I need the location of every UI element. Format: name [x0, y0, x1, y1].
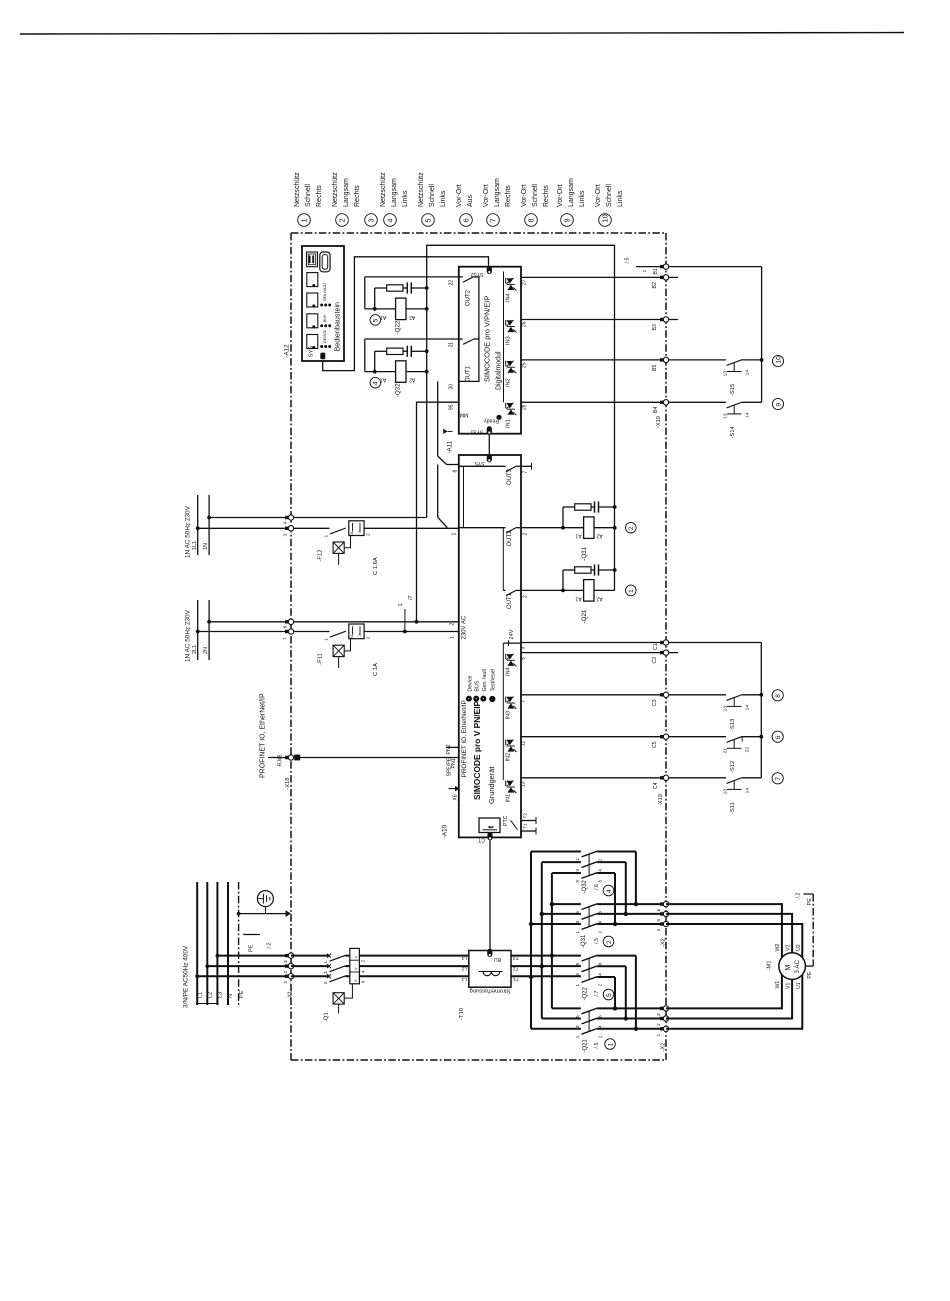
terminal feed1 L on boundary: [285, 527, 289, 530]
earthing symbol: [257, 891, 273, 907]
svg-text:RJ45: RJ45: [278, 754, 284, 766]
coil -Q21 A1-A2: [584, 580, 594, 602]
svg-text:14: 14: [745, 788, 751, 794]
digital module SYS1 connector: [487, 426, 492, 434]
svg-text:Netzschütz: Netzschütz: [380, 172, 387, 207]
svg-text:/.2: /.2: [796, 893, 802, 899]
svg-text:SYS: SYS: [309, 346, 315, 358]
svg-text:A1: A1: [575, 595, 581, 601]
base unit OUT3-OUT2 common bar: [463, 466, 465, 527]
svg-text:V1: V1: [786, 983, 792, 989]
svg-text:1: 1: [575, 1035, 580, 1038]
operator panel round button: [320, 252, 330, 272]
svg-text:C 1A: C 1A: [373, 663, 379, 676]
svg-text:Vor-Ort: Vor-Ort: [521, 184, 528, 207]
svg-text:Links: Links: [402, 190, 409, 207]
base unit input IN4: [505, 654, 507, 659]
svg-text:OUT3: OUT3: [507, 468, 513, 485]
phase tap L2: [205, 964, 209, 968]
svg-text:-Q32: -Q32: [395, 383, 402, 397]
phase bus vertical A (L1): [530, 852, 532, 1029]
svg-text:-S13: -S13: [730, 719, 736, 731]
svg-text:L3: L3: [218, 992, 224, 998]
enclosure boundary dash-dot left edge: [290, 233, 292, 1060]
svg-text:OUT2: OUT2: [466, 289, 472, 306]
function label circled 5 Netzschütz Schnell Links: [422, 214, 435, 227]
wire DM terminal 30 common to L: [437, 381, 439, 456]
wire -X2:6 to motor W2: [666, 904, 782, 958]
svg-text:B5: B5: [652, 365, 658, 371]
circled ref 1 at -Q21: [626, 585, 637, 596]
wire -F12 to base unit terminal 1: [364, 527, 459, 529]
svg-text:14: 14: [745, 370, 751, 376]
output link vertical E upper: [625, 862, 627, 914]
svg-text:Netzschütz: Netzschütz: [418, 172, 425, 207]
junction dot -Q22 coil A2 to N bus: [425, 307, 429, 311]
svg-text:Bedienbaustein: Bedienbaustein: [333, 302, 342, 352]
circuit breaker -Q1 pole L2: [291, 965, 329, 967]
svg-text:1: 1: [452, 533, 458, 536]
svg-text:-S14: -S14: [730, 425, 736, 438]
-Q32 RC branch wire: [374, 351, 376, 371]
PE continuation tick /.2: [243, 934, 260, 936]
base unit OUT3 unused stub terminal 7: [521, 465, 532, 467]
svg-text:2N: 2N: [203, 647, 209, 654]
svg-text:Rechts: Rechts: [543, 185, 550, 207]
svg-text:3: 3: [575, 973, 580, 976]
terminal -X1 pin 2: [285, 964, 289, 967]
svg-text:6: 6: [598, 911, 603, 914]
svg-text:2: 2: [598, 858, 603, 861]
ethernet connector -X18 RJ45 terminal: [285, 756, 289, 759]
capacitor of -Q22 RC snubber: [406, 282, 408, 293]
svg-text:230V AC: 230V AC: [462, 615, 468, 639]
svg-text:Digitalmodul: Digitalmodul: [496, 351, 503, 390]
wire -X2:4 to motor U2: [666, 924, 802, 958]
function label circled 3: [365, 214, 378, 227]
svg-text:1: 1: [299, 218, 308, 222]
svg-text:30: 30: [449, 384, 455, 390]
svg-text:5: 5: [521, 657, 527, 660]
svg-text:2: 2: [656, 1023, 662, 1026]
svg-text:25: 25: [522, 362, 528, 368]
terminal -X19 C2: [660, 651, 664, 654]
svg-text:2: 2: [450, 623, 456, 626]
svg-text:-Q22: -Q22: [395, 320, 402, 334]
supply line N: [227, 882, 229, 1005]
contactor -Q32 main contacts: [531, 851, 581, 853]
svg-text:-S15: -S15: [730, 384, 736, 396]
svg-text:L2: L2: [208, 992, 214, 998]
feed1 L1 stub: [197, 495, 199, 555]
svg-text:Vor-Ort: Vor-Ort: [557, 184, 564, 207]
svg-text:B4: B4: [653, 407, 659, 413]
svg-text:6: 6: [461, 218, 470, 222]
page top rule: [20, 33, 904, 35]
-Q22 bracket wire: [364, 277, 366, 309]
contactor -Q31 main contacts: [552, 903, 581, 905]
svg-text:OUT2: OUT2: [507, 530, 513, 547]
svg-text:MM: MM: [459, 412, 468, 418]
svg-text:10: 10: [600, 214, 609, 222]
output link vertical E lower: [625, 966, 627, 1018]
miniature circuit breaker -F11 C 1A: [330, 631, 346, 637]
wire feed2 N to base unit terminal 2: [209, 621, 459, 623]
svg-text:8: 8: [775, 694, 782, 698]
terminal -X2 pin 6: [660, 902, 664, 905]
svg-text:T2: T2: [523, 813, 529, 819]
terminal -X2 pin 5: [660, 912, 664, 915]
base unit 24V output: [508, 640, 510, 646]
svg-text:7: 7: [521, 700, 527, 703]
svg-text:6: 6: [598, 1015, 603, 1018]
svg-text:>: >: [354, 979, 360, 982]
base unit PN1 port wire PROFINET: [268, 757, 459, 759]
svg-text:4: 4: [385, 218, 394, 222]
svg-text:N: N: [228, 994, 234, 998]
svg-text:/.5: /.5: [594, 1043, 600, 1049]
wire PE to enclosure with arrow: [239, 913, 287, 915]
digital module relay contact OUT1: [459, 338, 463, 340]
svg-text:1: 1: [575, 931, 580, 934]
svg-text:10: 10: [775, 356, 782, 364]
wire DM IN1 to B4 through -S14: [521, 401, 726, 403]
base unit relay contact OUT2: [459, 527, 506, 529]
feed2 N stub: [208, 600, 210, 660]
svg-text:Links: Links: [579, 190, 586, 207]
svg-text:13: 13: [723, 371, 729, 377]
circled ref 4 at -Q32: [370, 377, 381, 388]
circled ref 5 at -Q22: [370, 315, 381, 326]
svg-text:Rechts: Rechts: [505, 185, 512, 207]
svg-text:u: u: [349, 635, 354, 638]
base unit thermistor input PTC: [479, 818, 500, 833]
feed2 L1 stub: [197, 600, 199, 660]
svg-text:L2: L2: [461, 966, 467, 972]
svg-text:4: 4: [598, 869, 603, 872]
base unit PN2 port stub: [446, 746, 459, 748]
svg-text:21: 21: [449, 342, 455, 348]
svg-text:Vor-Ort: Vor-Ort: [595, 184, 602, 207]
terminal -X19 C5: [660, 735, 664, 738]
circled ref 8 at -S13: [772, 690, 783, 701]
svg-text:4: 4: [598, 1025, 603, 1028]
junction dot -Q32 coil A2 to N bus: [425, 370, 429, 374]
svg-text:SIMOCODE pro V PN/EIP: SIMOCODE pro V PN/EIP: [472, 700, 482, 800]
junction dot -Q21 RC to N wire: [613, 568, 617, 572]
contactor coil circuit -Q22 feed wire: [365, 276, 459, 278]
wire -X2:3 to motor W1: [666, 975, 782, 1009]
terminal feed2 N on boundary: [285, 620, 289, 623]
-Q22 RC branch wire: [374, 288, 376, 309]
wire base unit IN4 to C2 stub: [521, 652, 678, 654]
circled ref 2 at -Q31 power: [603, 936, 614, 947]
svg-text:5: 5: [656, 919, 662, 922]
svg-text:A2: A2: [596, 595, 602, 601]
terminal -X2 pin 4: [660, 922, 664, 925]
supply line L1: [196, 882, 198, 1005]
svg-text:/.5: /.5: [594, 938, 600, 944]
wire reference 1 /7 stub: [404, 609, 406, 632]
wire -X2:5 to motor V2: [666, 914, 792, 953]
svg-text:-A11: -A11: [447, 440, 454, 453]
function label circled 10 Vor-Ort Schnell Links: [599, 214, 612, 227]
svg-text:1L1: 1L1: [192, 541, 198, 550]
terminal feed1 N on boundary: [285, 516, 289, 519]
svg-text:1: 1: [656, 1034, 662, 1037]
svg-text:2: 2: [598, 931, 603, 934]
svg-text:3: 3: [283, 534, 289, 537]
PE dash-dot drop to motor: [812, 894, 814, 960]
operator panel button/LED group 2 with GEN.FAULT LEDs: [307, 293, 318, 307]
junction dot -Q22 RC to N bus: [425, 286, 429, 290]
svg-text:C5: C5: [652, 741, 658, 748]
contactor -Q22 main contacts in phase lines: [582, 955, 598, 961]
svg-text:1: 1: [450, 636, 456, 639]
svg-text:PN2: PN2: [446, 744, 452, 754]
terminal -X19 B2: [660, 276, 664, 279]
svg-text:-X2: -X2: [661, 938, 667, 947]
svg-text:2: 2: [366, 533, 372, 536]
feed1 N stub: [208, 495, 210, 555]
digital module input IN4: [505, 278, 507, 283]
junction dot -Q32 RC to N bus: [425, 349, 429, 353]
svg-text:5: 5: [575, 962, 580, 965]
svg-text:-T10: -T10: [459, 1008, 465, 1020]
svg-text:CT: CT: [478, 837, 485, 843]
junction dot MM wire on N feed: [415, 620, 419, 624]
wire DM SYS1 to base unit SYS: [488, 434, 490, 455]
base unit input rail: [502, 643, 504, 780]
svg-text:SYS1: SYS1: [470, 429, 483, 435]
svg-text:BUS: BUS: [475, 680, 481, 691]
svg-text:22: 22: [449, 280, 455, 286]
coil -Q22 A1-A2: [396, 298, 406, 320]
svg-text:-A10: -A10: [442, 824, 449, 838]
supply line L3: [216, 882, 218, 1005]
svg-text:2L1: 2L1: [192, 645, 198, 654]
svg-text:-F11: -F11: [318, 653, 324, 665]
svg-text:Links: Links: [617, 190, 624, 207]
svg-text:1: 1: [398, 603, 404, 606]
svg-text:3 AC: 3 AC: [794, 960, 801, 974]
wire feed1 L through -F12: [198, 527, 330, 529]
terminal -X19 C1: [660, 641, 664, 644]
svg-text:2: 2: [283, 971, 289, 974]
svg-text:W2: W2: [775, 944, 781, 952]
svg-text:V2: V2: [786, 945, 792, 951]
terminal -X2 pin 3: [660, 1007, 664, 1010]
svg-text:IN1: IN1: [506, 794, 512, 803]
svg-text:1: 1: [575, 984, 580, 987]
phase bus vertical B (L2): [541, 862, 543, 1018]
coil -Q31 A1-A2: [584, 517, 594, 539]
svg-text:GEN.FAULT: GEN.FAULT: [323, 282, 327, 301]
svg-text:Netzschütz: Netzschütz: [294, 172, 301, 207]
operator panel -A12 box: [302, 246, 344, 361]
base unit SPE/PE functional earth arrow: [449, 788, 456, 790]
svg-text:SPE/PE: SPE/PE: [447, 757, 453, 776]
svg-text:2: 2: [606, 940, 613, 944]
svg-text:L1: L1: [461, 976, 467, 982]
svg-text:-S11: -S11: [730, 802, 736, 814]
circled ref 5 at -Q22 power: [603, 989, 614, 1000]
motor -M1 M 3AC: [779, 953, 806, 980]
svg-text:A1: A1: [575, 533, 581, 539]
svg-text:-X19: -X19: [656, 416, 662, 428]
contactor coil circuit -Q21 feed wire from base unit: [521, 589, 584, 591]
svg-text:Langsam: Langsam: [343, 178, 350, 207]
svg-text:IN2: IN2: [506, 753, 512, 762]
circled ref 6 at -S12: [772, 731, 783, 742]
function label circled 1 Netzschütz Schnell Rechts: [298, 214, 311, 227]
svg-text:PROFINET IO, EtherNet/IP: PROFINET IO, EtherNet/IP: [260, 693, 267, 778]
svg-text:5: 5: [575, 1015, 580, 1018]
base unit CT current-measurement connector: [487, 832, 492, 840]
function label circled 7 Vor-Ort Langsam Rechts: [487, 214, 500, 227]
svg-text:Ready: Ready: [484, 418, 499, 424]
svg-text:1: 1: [628, 589, 635, 593]
function label circled 8 Vor-Ort Schnell Rechts: [525, 214, 538, 227]
svg-text:IN4: IN4: [506, 667, 512, 676]
coil -Q32 A1-A2: [396, 361, 406, 383]
circuit breaker -Q1 trip element: [333, 993, 344, 1004]
operator panel SYS connector: [320, 353, 325, 360]
svg-text:-X1: -X1: [288, 991, 294, 1000]
svg-text:Rechts: Rechts: [316, 185, 323, 207]
pushbutton -S15: [727, 360, 743, 366]
svg-text:/7: /7: [408, 595, 414, 600]
digital module input IN2: [505, 361, 507, 366]
wire -X2:2 to motor V1: [666, 979, 792, 1018]
miniature circuit breaker -F12 C 1.6A: [330, 528, 346, 534]
svg-text:6: 6: [598, 962, 603, 965]
svg-text:C2: C2: [652, 657, 658, 664]
svg-text:6: 6: [656, 909, 662, 912]
wire B1 common from DM supply: [636, 266, 762, 268]
svg-text:-X19: -X19: [658, 794, 664, 806]
output link vertical F upper: [635, 852, 637, 905]
svg-text:1N: 1N: [203, 543, 209, 550]
svg-text:1: 1: [324, 535, 330, 538]
svg-text:PE: PE: [807, 971, 813, 978]
svg-text:SYS2: SYS2: [470, 271, 483, 277]
wires -T10 to contactor group: [511, 955, 581, 957]
terminal -X19 C3: [660, 693, 664, 696]
resistor of -Q22 RC snubber: [387, 285, 403, 291]
svg-text:/.6: /.6: [594, 884, 600, 890]
terminal -X19 B3: [660, 318, 664, 321]
-T10 measuring loops: [479, 971, 503, 973]
svg-text:4: 4: [598, 973, 603, 976]
common rail wire C1 to C4: [760, 643, 762, 778]
terminal -X19 C4: [660, 776, 664, 779]
svg-text:DEVICE: DEVICE: [323, 329, 327, 342]
svg-text:-F12: -F12: [318, 550, 324, 562]
svg-text:9: 9: [562, 218, 571, 222]
terminal -X19 B4: [660, 401, 664, 404]
svg-text:13: 13: [723, 789, 729, 795]
svg-text:Vor-Ort: Vor-Ort: [456, 184, 463, 207]
base unit relay contact OUT3: [459, 465, 506, 467]
svg-text:2: 2: [598, 984, 603, 987]
svg-text:8: 8: [526, 218, 535, 222]
-Q31 bracket wire: [561, 526, 565, 530]
terminal -X1 pin 1: [285, 975, 289, 978]
svg-text:27: 27: [522, 279, 528, 285]
wire base unit IN2 to C5 through -S12: [521, 736, 726, 738]
wire -X2:1 to motor U1: [666, 975, 802, 1029]
svg-text:-S12: -S12: [730, 761, 736, 773]
svg-text:PE: PE: [807, 898, 813, 906]
svg-text:-Q21: -Q21: [581, 609, 588, 623]
svg-text:>: >: [357, 530, 362, 533]
svg-text:-X2: -X2: [661, 1043, 667, 1052]
svg-text:W1: W1: [775, 981, 781, 989]
digital module input rail: [503, 272, 505, 403]
resistor of -Q32 RC snubber: [387, 348, 403, 354]
function label circled 2 Netzschütz Langsam Rechts: [336, 214, 349, 227]
svg-text:8: 8: [453, 470, 459, 473]
svg-text:Rechts: Rechts: [354, 185, 361, 207]
operator panel button/LED group 4 with DEVICE LEDs: [307, 335, 318, 349]
svg-text:Test/reset: Test/reset: [491, 668, 497, 691]
svg-text:PE: PE: [249, 944, 255, 952]
digital module -A11 box SIMOCODE pro V/PN/EIP Digitalmodul: [459, 267, 521, 434]
wire feed2 L through -F11: [198, 631, 330, 633]
svg-text:Device: Device: [467, 676, 473, 692]
wire -A12 SYS to digital module SYS2: [323, 257, 489, 371]
svg-text:IN1: IN1: [506, 419, 512, 428]
digital module Ready LED: [496, 415, 501, 420]
svg-text:22: 22: [745, 747, 751, 753]
svg-text:4: 4: [598, 920, 603, 923]
svg-text:9: 9: [775, 403, 782, 407]
circled ref 7 at -S11: [772, 773, 783, 784]
circled ref 1 at -Q21 power: [605, 1039, 616, 1050]
svg-text:PE: PE: [239, 990, 245, 998]
svg-text:B3: B3: [652, 324, 658, 330]
svg-text:26: 26: [522, 321, 528, 327]
supply line PE dash-dot: [238, 882, 240, 1005]
svg-text:/.2: /.2: [267, 943, 273, 949]
wire N bus for coil circuits: [427, 245, 615, 590]
svg-text:3: 3: [521, 647, 527, 650]
svg-text:3: 3: [656, 1013, 662, 1016]
svg-text:>: >: [354, 956, 360, 959]
svg-text:PROFINET IO, EtherNet/IP: PROFINET IO, EtherNet/IP: [461, 700, 468, 777]
svg-text:C4: C4: [653, 782, 659, 789]
phase bus vertical C (L3): [551, 873, 553, 1008]
base unit input IN1: [505, 781, 507, 786]
svg-text:X6: X6: [453, 794, 459, 800]
svg-text:Langsam: Langsam: [568, 178, 575, 207]
capacitor of -Q32 RC snubber: [406, 346, 408, 357]
svg-text:Schnell: Schnell: [606, 184, 613, 207]
supply line L2: [206, 882, 208, 1005]
svg-text:14: 14: [745, 412, 751, 418]
svg-text:SYS: SYS: [474, 460, 485, 466]
svg-text:/.7: /.7: [594, 991, 600, 997]
svg-text:C3: C3: [652, 699, 658, 706]
svg-text:3: 3: [575, 1025, 580, 1028]
svg-text:1: 1: [324, 638, 330, 641]
svg-text:3: 3: [575, 869, 580, 872]
base unit status LEDs Device BUS Gen.fault Test/reset: [466, 696, 472, 702]
common rail wire B1 to B4: [761, 267, 763, 403]
resistor of -Q21 RC snubber: [575, 567, 591, 573]
svg-text:-X18: -X18: [285, 778, 291, 790]
